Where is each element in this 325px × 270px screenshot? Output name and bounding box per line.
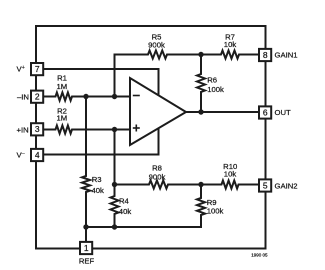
svg-text:R3: R3 bbox=[92, 175, 102, 184]
svg-text:1990 05: 1990 05 bbox=[251, 253, 268, 258]
pin 3 box bbox=[31, 123, 43, 135]
svg-text:R6: R6 bbox=[207, 76, 217, 85]
svg-text:10k: 10k bbox=[224, 169, 237, 178]
op-amp plus input mark bbox=[133, 127, 140, 129]
svg-text:OUT: OUT bbox=[275, 108, 292, 117]
svg-text:100k: 100k bbox=[207, 85, 224, 94]
svg-text:–IN: –IN bbox=[17, 92, 29, 101]
node R1/R3 bbox=[83, 94, 88, 99]
wire +IN input with resistor R2 1M bbox=[43, 126, 130, 134]
svg-text:REF: REF bbox=[79, 257, 95, 266]
op-amp minus input mark bbox=[133, 95, 140, 97]
wire shunt with resistor R9 100k bbox=[197, 185, 205, 228]
svg-text:8: 8 bbox=[263, 50, 268, 60]
op-amp U1 triangle bbox=[130, 78, 186, 145]
svg-text:10k: 10k bbox=[224, 40, 237, 49]
wire pin 1 REF drop bbox=[85, 227, 87, 242]
svg-text:3: 3 bbox=[35, 124, 40, 134]
svg-text:5: 5 bbox=[263, 180, 268, 190]
wire V+ supply rail from pin 7 to amp box top, right edge, and V- rail back to pin 4 bbox=[43, 69, 158, 155]
pin 1 box bbox=[80, 242, 92, 254]
junction dots bbox=[83, 52, 203, 230]
node R5/R7/R6 bbox=[198, 52, 203, 57]
IC package border bbox=[36, 26, 266, 249]
svg-text:R4: R4 bbox=[119, 196, 130, 205]
pin 2 box bbox=[31, 91, 43, 103]
wire -IN input with resistor R1 1M bbox=[43, 93, 130, 101]
svg-text:6: 6 bbox=[263, 107, 268, 117]
wire feedback net with resistor R5 900k and resistor R7 10k bbox=[115, 51, 260, 97]
svg-text:1M: 1M bbox=[56, 82, 67, 91]
pin boxes bbox=[31, 49, 271, 254]
svg-text:4: 4 bbox=[35, 150, 40, 160]
svg-text:2: 2 bbox=[35, 92, 40, 102]
wire REF bottom net bbox=[86, 226, 201, 228]
svg-text:1M: 1M bbox=[56, 114, 67, 123]
pin name labels bbox=[17, 51, 298, 266]
pin 4 box bbox=[31, 149, 43, 161]
pin 5 box bbox=[259, 179, 271, 191]
svg-text:+IN: +IN bbox=[17, 125, 29, 134]
wire op-amp output to OUT pin bbox=[186, 111, 260, 113]
node feedback/-IN bbox=[112, 94, 117, 99]
svg-text:GAIN1: GAIN1 bbox=[275, 51, 298, 60]
resistor value labels bbox=[56, 33, 237, 182]
pin 6 box bbox=[259, 106, 271, 118]
pin 7 box bbox=[31, 63, 43, 75]
svg-text:7: 7 bbox=[35, 64, 40, 74]
svg-text:R9: R9 bbox=[207, 198, 217, 207]
svg-text:V+: V+ bbox=[17, 64, 25, 73]
node R4/R8 bbox=[112, 182, 117, 187]
node R4/REF bbox=[112, 224, 117, 229]
wire gain2 net with resistor R8 900k and resistor R10 10k bbox=[115, 181, 260, 189]
svg-text:900k: 900k bbox=[149, 173, 166, 182]
svg-text:1: 1 bbox=[84, 243, 89, 253]
node +IN branch bbox=[112, 127, 117, 132]
wire branch with resistor R4 40k bbox=[111, 130, 119, 228]
svg-text:R8: R8 bbox=[152, 164, 162, 173]
node OUT/R6 bbox=[198, 109, 203, 114]
wire branch with resistor R3 40k bbox=[82, 97, 90, 228]
node R8/R10/R9 bbox=[198, 182, 203, 187]
wire shunt with resistor R6 100k bbox=[197, 55, 205, 113]
svg-text:900k: 900k bbox=[148, 40, 165, 49]
pin 8 box bbox=[259, 49, 271, 61]
node R3/REF bbox=[83, 224, 88, 229]
svg-text:V–: V– bbox=[17, 150, 26, 159]
svg-text:40k: 40k bbox=[119, 207, 132, 216]
svg-text:100k: 100k bbox=[207, 207, 224, 216]
svg-text:40k: 40k bbox=[92, 186, 105, 195]
svg-text:GAIN2: GAIN2 bbox=[275, 181, 298, 190]
